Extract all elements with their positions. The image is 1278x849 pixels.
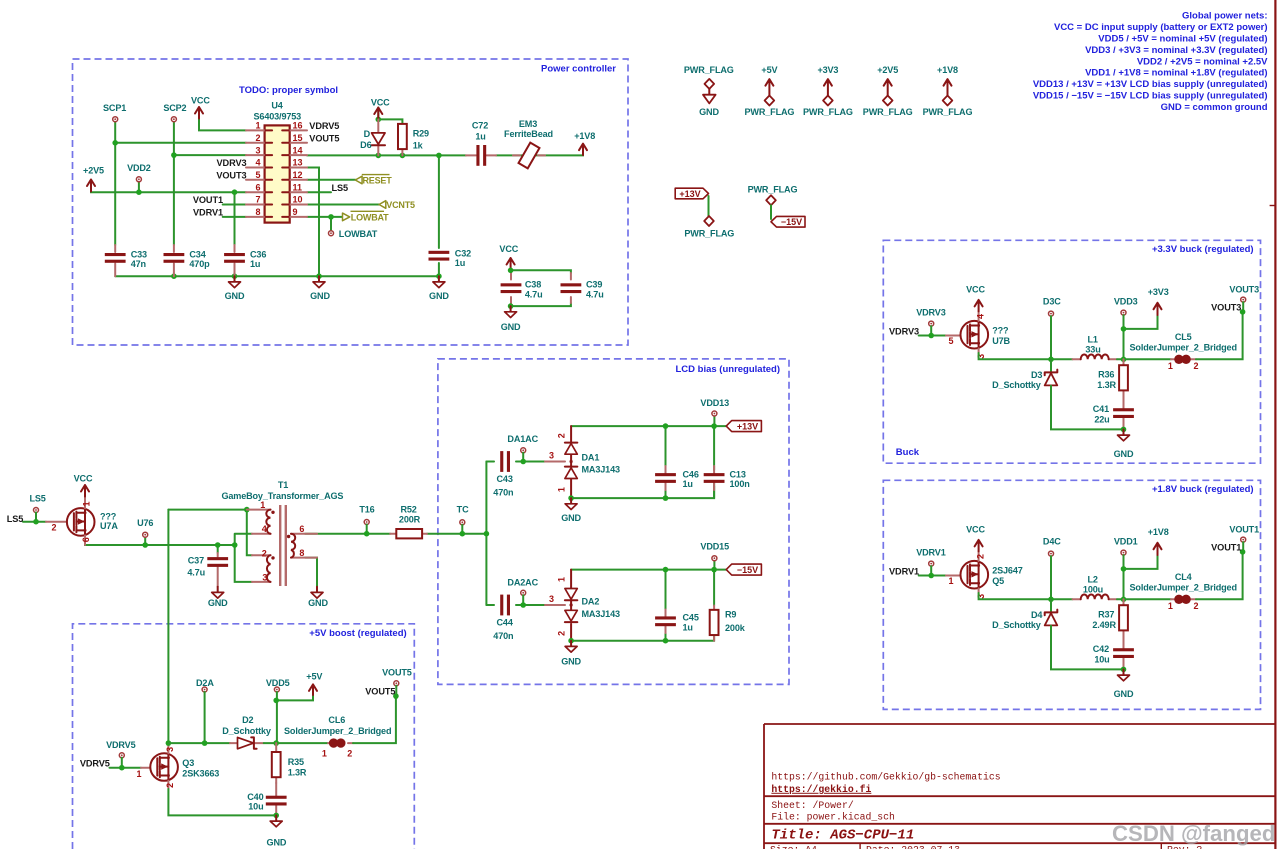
section box: +3.3V buck (regulated): [883, 240, 1260, 463]
wire R9 top: [713, 570, 715, 606]
svg-text:SCP1: SCP1: [103, 103, 126, 113]
svg-text:VDD3: VDD3: [1114, 296, 1138, 306]
node SCP1: [103, 103, 126, 122]
node VDRV3: [916, 308, 946, 336]
wire CL5 to VOUT3: [1196, 312, 1243, 359]
svg-text:1u: 1u: [455, 258, 465, 268]
svg-text:D_Schottky: D_Schottky: [222, 726, 272, 736]
wire DA1 bottom bus: [571, 483, 714, 498]
ground (C41): [1114, 429, 1134, 459]
inductor L1 33u: [1073, 334, 1118, 359]
wire VDRV5 to Q3 gate: [110, 767, 142, 769]
svg-text:C41: C41: [1093, 404, 1109, 414]
svg-text:LOWBAT: LOWBAT: [339, 229, 378, 239]
node D2A: [196, 678, 214, 743]
junction: [232, 189, 238, 195]
power VCC (U7A): [74, 474, 93, 497]
svg-text:DA1AC: DA1AC: [507, 434, 538, 444]
junction: [1121, 667, 1127, 673]
wire DA1 top bus to +13V: [571, 425, 726, 427]
junction: [928, 333, 934, 339]
svg-text:1.3R: 1.3R: [1097, 380, 1116, 390]
svg-text:100u: 100u: [1083, 585, 1103, 595]
svg-text:VOUT5: VOUT5: [382, 667, 412, 677]
junction: [1048, 597, 1054, 603]
transistor U7B ???: [946, 311, 1011, 358]
diode D2 D_Schottky: [222, 715, 272, 749]
svg-text:100n: 100n: [730, 479, 750, 489]
svg-text:15: 15: [293, 133, 303, 143]
title block: [764, 724, 1275, 849]
junction: [171, 152, 177, 158]
wire pin14 main net: [307, 154, 466, 156]
svg-text:CL4: CL4: [1175, 572, 1193, 582]
svg-text:D2A: D2A: [196, 678, 214, 688]
junction: [520, 602, 526, 608]
hierarchical label LOWBAT: [343, 211, 390, 222]
svg-text:EM3: EM3: [519, 119, 537, 129]
node LOWBAT: [329, 229, 378, 239]
svg-text:47n: 47n: [131, 259, 146, 269]
capacitor C42 10u: [1093, 635, 1134, 669]
svg-text:File: power.kicad_sch: File: power.kicad_sch: [771, 811, 895, 822]
wire to T1 pin1: [168, 509, 246, 511]
wire T1 pin1/pin2 tie: [247, 510, 252, 556]
junction: [171, 273, 177, 279]
capacitor C37 4.7u: [187, 553, 228, 587]
svg-text:1: 1: [1168, 601, 1173, 611]
svg-text:Title: AGS−CPU−11: Title: AGS−CPU−11: [771, 828, 914, 844]
node VDD15: [700, 542, 729, 561]
power +5V: [276, 671, 322, 700]
svg-text:2SJ647: 2SJ647: [992, 565, 1023, 575]
svg-text:5: 5: [948, 336, 953, 346]
junction: [663, 423, 669, 429]
power VCC (pin1): [191, 95, 210, 118]
hierarchical label RESET: [355, 175, 392, 186]
wire pin13 to GND: [307, 168, 319, 277]
svg-text:MA3J143: MA3J143: [582, 609, 620, 619]
svg-text:1: 1: [557, 577, 567, 582]
svg-text:8: 8: [299, 548, 304, 558]
svg-text:2.49R: 2.49R: [1092, 620, 1116, 630]
node SCP2: [163, 103, 186, 122]
svg-text:PWR_FLAG: PWR_FLAG: [803, 107, 853, 117]
svg-text:VDD13 / +13V = +13V LCD bias s: VDD13 / +13V = +13V LCD bias supply (unr…: [1033, 79, 1268, 90]
ground (C38): [501, 306, 521, 332]
svg-text:1: 1: [1168, 361, 1173, 371]
capacitor C13 100n: [704, 426, 750, 498]
junction: [1121, 566, 1127, 572]
power +1V8: [1124, 527, 1169, 569]
svg-text:1: 1: [82, 501, 92, 506]
svg-text:2: 2: [557, 433, 567, 438]
junction: [1121, 427, 1127, 433]
svg-text:D6: D6: [360, 140, 371, 150]
svg-text:+13V: +13V: [737, 422, 758, 432]
wire VDRV3 to gate: [919, 335, 946, 337]
capacitor C46 1u: [655, 466, 699, 490]
junction: [568, 638, 574, 644]
resistor R37 2.49R: [1092, 599, 1128, 635]
svg-text:VDD5: VDD5: [266, 678, 290, 688]
svg-text:14: 14: [293, 145, 303, 155]
svg-text:LCD bias (unregulated): LCD bias (unregulated): [675, 364, 780, 375]
svg-text:GND: GND: [310, 291, 330, 301]
wire U76 stub: [144, 537, 146, 545]
svg-text:U76: U76: [137, 518, 153, 528]
svg-text:U7A: U7A: [100, 521, 118, 531]
svg-text:C72: C72: [472, 120, 488, 130]
junction: [711, 423, 717, 429]
svg-text:1u: 1u: [683, 479, 693, 489]
svg-text:2: 2: [1194, 601, 1199, 611]
junction: [436, 273, 442, 279]
junction: [316, 273, 322, 279]
svg-text:+2V5: +2V5: [877, 65, 898, 75]
svg-text:1u: 1u: [475, 132, 485, 142]
svg-text:SCP2: SCP2: [163, 103, 186, 113]
svg-text:D4: D4: [1031, 610, 1043, 620]
node VDD5: [266, 678, 290, 743]
diode D3 D_Schottky: [992, 359, 1123, 429]
svg-text:VDD1 / +1V8 = nominal +1.8V (r: VDD1 / +1V8 = nominal +1.8V (regulated): [1085, 68, 1267, 79]
power flag +3V3/PWR_FLAG: [803, 65, 853, 117]
svg-text:Date: 2023-07-13: Date: 2023-07-13: [866, 845, 960, 849]
node D3C: [1043, 296, 1061, 359]
svg-text:https://gekkio.fi: https://gekkio.fi: [771, 784, 871, 795]
junction: [508, 303, 514, 309]
svg-text:S6403/9753: S6403/9753: [254, 112, 302, 122]
wire T1 pin6 to TC: [305, 533, 486, 535]
svg-text:4.7u: 4.7u: [187, 568, 205, 578]
svg-text:VCC: VCC: [966, 525, 985, 535]
junction: [244, 507, 250, 513]
svg-text:D4C: D4C: [1043, 536, 1061, 546]
svg-text:VDRV5: VDRV5: [106, 740, 136, 750]
node VOUT3: [1229, 284, 1259, 312]
svg-text:LS5: LS5: [29, 494, 45, 504]
wire U7A source to transformer tap: [85, 544, 235, 545]
svg-text:VCNT5: VCNT5: [386, 200, 415, 210]
diode DA2 MA3J143: [545, 570, 620, 641]
capacitor C39 4.7u: [561, 273, 604, 303]
junction: [520, 459, 526, 465]
transistor U7A ??? p-mosfet: [46, 497, 118, 546]
svg-text:10: 10: [293, 195, 303, 205]
ground (DA2): [561, 641, 581, 667]
svg-text:GameBoy_Transformer_AGS: GameBoy_Transformer_AGS: [221, 491, 343, 501]
power VCC (Q5): [966, 525, 985, 552]
ground (C42): [1114, 669, 1134, 699]
wire VCC-D6-R29 top: [378, 108, 402, 125]
svg-text:+1.8V buck (regulated): +1.8V buck (regulated): [1152, 484, 1254, 495]
capacitor C40 10u: [247, 783, 286, 815]
ground (DA1): [561, 498, 581, 523]
svg-text:LOWBAT: LOWBAT: [351, 212, 389, 222]
svg-text:PWR_FLAG: PWR_FLAG: [744, 107, 794, 117]
ground (pin13): [310, 276, 330, 301]
svg-text:2: 2: [255, 133, 260, 143]
wire C37 stub: [217, 545, 219, 553]
svg-text:Sheet: /Power/: Sheet: /Power/: [771, 800, 853, 811]
wire pin2: [115, 142, 246, 144]
svg-text:R36: R36: [1098, 370, 1114, 380]
svg-text:200k: 200k: [725, 623, 746, 633]
svg-text:D_Schottky: D_Schottky: [992, 620, 1042, 630]
svg-text:DA1: DA1: [582, 452, 600, 462]
svg-text:VDRV1: VDRV1: [193, 208, 223, 218]
svg-text:+5V: +5V: [761, 65, 777, 75]
junction: [364, 531, 370, 537]
resistor R29 1k: [398, 124, 429, 155]
node T16: [359, 504, 374, 533]
svg-text:R35: R35: [288, 757, 304, 767]
resistor R36 1.3R: [1097, 359, 1128, 395]
svg-text:C45: C45: [683, 613, 699, 623]
svg-text:1.3R: 1.3R: [288, 767, 307, 777]
power flag PWR_FLAG/GND: [684, 65, 734, 117]
wire TC split vertical: [485, 462, 487, 606]
wire VDRV1 to pin8: [223, 216, 246, 218]
svg-text:Size: A4: Size: A4: [770, 845, 817, 849]
svg-text:C36: C36: [250, 249, 266, 259]
wire long vertical to +5V boost: [167, 510, 169, 743]
junction: [232, 273, 238, 279]
svg-text:DA2AC: DA2AC: [507, 577, 538, 587]
ground (T1 pin8): [308, 587, 328, 609]
svg-text:VDD13: VDD13: [700, 398, 729, 408]
svg-text:VDD2: VDD2: [127, 163, 151, 173]
junction: [663, 495, 669, 501]
node VDD3: [1114, 296, 1138, 359]
svg-text:1: 1: [136, 769, 141, 779]
junction: [33, 519, 39, 525]
junction: [136, 189, 142, 195]
wire LOWBAT drop: [330, 217, 332, 231]
svg-text:VDRV3: VDRV3: [889, 326, 919, 336]
junction: [1240, 549, 1246, 555]
svg-text:VOUT1: VOUT1: [193, 195, 223, 205]
svg-text:VDRV1: VDRV1: [889, 566, 919, 576]
capacitor C33: [105, 245, 147, 276]
svg-text:VOUT3: VOUT3: [1229, 284, 1259, 294]
svg-text:2: 2: [165, 783, 175, 788]
diode D6: [360, 119, 385, 155]
junction: [112, 140, 118, 146]
capacitor C34: [164, 245, 211, 276]
svg-text:3: 3: [262, 573, 267, 583]
svg-text:VDD15: VDD15: [700, 542, 729, 552]
wire C38/C39 top: [511, 270, 571, 273]
junction: [400, 153, 406, 159]
svg-text:6: 6: [81, 537, 91, 542]
svg-text:Q3: Q3: [182, 758, 194, 768]
diode DA1 MA3J143: [545, 426, 620, 498]
wire C36 branch: [234, 192, 236, 245]
junction: [142, 542, 148, 548]
wire D2 to VDD5 node: [264, 742, 328, 744]
wire +2V5 to pin6: [91, 191, 246, 192]
svg-text:3: 3: [165, 747, 175, 752]
svg-text:200R: 200R: [399, 515, 421, 525]
wire switch node: [979, 353, 1073, 359]
wire VDD13 stub: [713, 416, 715, 426]
wire VCC to pin1: [199, 118, 246, 130]
capacitor C44 470n: [493, 595, 514, 641]
wire C72 to EM3 to +1V8: [496, 145, 583, 156]
junction: [663, 567, 669, 573]
wire C46 stubs: [665, 426, 667, 498]
svg-text:GND: GND: [501, 322, 521, 332]
svg-text:2: 2: [262, 548, 267, 558]
wire Q3 source to ground bus: [168, 789, 276, 815]
svg-text:VDRV5: VDRV5: [80, 759, 110, 769]
svg-text:12: 12: [293, 170, 303, 180]
svg-text:U4: U4: [271, 101, 283, 111]
svg-text:2: 2: [1194, 361, 1199, 371]
svg-text:https://github.com/Gekkio/gb-s: https://github.com/Gekkio/gb-schematics: [771, 772, 1000, 783]
capacitor C72 1u: [466, 120, 496, 166]
svg-text:RESET: RESET: [363, 175, 393, 185]
wire pin12 to RESET: [307, 179, 355, 181]
svg-text:−15V: −15V: [781, 217, 802, 227]
node LS5: [29, 494, 45, 513]
ferrite bead EM3: [504, 119, 553, 169]
section box: +5V boost (regulated): [73, 624, 415, 849]
svg-text:PWR_FLAG: PWR_FLAG: [684, 229, 734, 239]
svg-text:+1V8: +1V8: [937, 65, 958, 75]
pin names U4: [193, 121, 348, 217]
svg-text:MA3J143: MA3J143: [582, 465, 620, 475]
section box: Power controller: [73, 59, 629, 345]
svg-text:VOUT1: VOUT1: [1211, 542, 1241, 552]
capacitor C45 1u: [655, 610, 699, 634]
svg-text:4.7u: 4.7u: [525, 289, 543, 299]
op-amp U4 S6403/9753 power controller IC: [246, 101, 307, 223]
svg-text:+3V3: +3V3: [817, 65, 838, 75]
power flag +13V/PWR_FLAG: [675, 188, 734, 238]
svg-text:4: 4: [975, 314, 985, 319]
solder jumper CL4: [1130, 572, 1237, 611]
svg-text:GND: GND: [699, 107, 719, 117]
junction: [166, 740, 172, 746]
svg-text:C39: C39: [586, 280, 602, 290]
svg-text:VDRV3: VDRV3: [217, 158, 247, 168]
svg-text:VDD1: VDD1: [1114, 536, 1138, 546]
inductor L2 100u: [1073, 574, 1118, 599]
svg-text:16: 16: [293, 121, 303, 131]
junction: [1121, 326, 1127, 332]
global label -15V: [726, 564, 761, 575]
solder jumper CL5: [1130, 332, 1237, 371]
hierarchical label VCNT5: [379, 200, 415, 210]
junction: [376, 153, 382, 159]
svg-text:C38: C38: [525, 280, 541, 290]
section box: +1.8V buck (regulated): [883, 480, 1260, 709]
svg-text:DA2: DA2: [582, 597, 600, 607]
svg-text:+1V8: +1V8: [574, 131, 595, 141]
svg-text:C13: C13: [730, 469, 746, 479]
ground (C40): [267, 815, 287, 847]
solder jumper CL6: [284, 715, 391, 759]
ground (C32): [429, 276, 449, 301]
svg-text:6: 6: [299, 524, 304, 534]
node TC: [457, 504, 469, 533]
svg-text:470n: 470n: [493, 487, 513, 497]
svg-text:GND: GND: [308, 598, 328, 608]
svg-text:+5V: +5V: [306, 671, 322, 681]
svg-text:4: 4: [262, 524, 267, 534]
power flag +5V/PWR_FLAG: [744, 65, 794, 117]
power flag +1V8/PWR_FLAG: [923, 65, 973, 117]
junction: [1121, 597, 1127, 603]
svg-text:VDD5 / +5V = nominal +5V (regu: VDD5 / +5V = nominal +5V (regulated): [1098, 33, 1267, 44]
transformer T1 GameBoy_Transformer_AGS: [221, 480, 343, 586]
wire DA2 bottom bus: [571, 635, 714, 641]
power +2V5: [83, 166, 104, 192]
svg-text:1: 1: [948, 576, 953, 586]
svg-text:VDD2 / +2V5 = nominal +2.5V: VDD2 / +2V5 = nominal +2.5V: [1137, 56, 1268, 67]
svg-text:CL6: CL6: [328, 715, 345, 725]
svg-text:2SK3663: 2SK3663: [182, 769, 219, 779]
svg-text:C34: C34: [189, 249, 206, 259]
svg-text:22u: 22u: [1094, 415, 1109, 425]
wire C45 stubs: [665, 570, 667, 641]
svg-text:1u: 1u: [250, 259, 260, 269]
wire SCP1 vertical: [114, 122, 116, 245]
wire VDD15 stub: [713, 561, 715, 570]
svg-text:T16: T16: [359, 504, 374, 514]
svg-text:GND = common ground: GND = common ground: [1161, 102, 1268, 113]
svg-text:8: 8: [255, 207, 260, 217]
junction: [1240, 309, 1246, 315]
junction: [568, 495, 574, 501]
svg-text:3: 3: [976, 594, 986, 599]
node VDD13: [700, 398, 729, 416]
junction: [328, 214, 334, 220]
section box: LCD bias (unregulated): [438, 359, 789, 685]
svg-text:VOUT3: VOUT3: [216, 170, 246, 180]
svg-text:3: 3: [549, 450, 554, 460]
svg-text:VCC: VCC: [371, 97, 390, 107]
svg-text:1: 1: [255, 121, 260, 131]
power VCC (U7B): [966, 285, 985, 312]
wire CL6 to VOUT5: [353, 696, 396, 743]
svg-text:C42: C42: [1093, 644, 1109, 654]
junction: [1121, 357, 1127, 363]
wire ground bus: [115, 263, 439, 276]
svg-text:D: D: [364, 129, 371, 139]
svg-text:D3: D3: [1031, 370, 1042, 380]
svg-text:2: 2: [975, 554, 985, 559]
svg-text:GND: GND: [429, 291, 449, 301]
svg-text:SolderJumper_2_Bridged: SolderJumper_2_Bridged: [1130, 583, 1237, 593]
wire LS5 to U7A gate: [23, 521, 46, 523]
junction: [436, 153, 442, 159]
power VCC (C38): [499, 244, 518, 269]
power flag +2V5/PWR_FLAG: [863, 65, 913, 117]
svg-text:3: 3: [976, 354, 986, 359]
junction: [215, 542, 221, 548]
svg-text:GND: GND: [1114, 689, 1134, 699]
svg-text:SolderJumper_2_Bridged: SolderJumper_2_Bridged: [1130, 343, 1237, 353]
svg-text:1k: 1k: [413, 141, 424, 151]
wire C43 to DA1: [516, 461, 545, 463]
svg-text:−15V: −15V: [737, 565, 758, 575]
wire pin9 to LOWBAT: [307, 216, 343, 218]
resistor R52 200R: [390, 504, 427, 538]
